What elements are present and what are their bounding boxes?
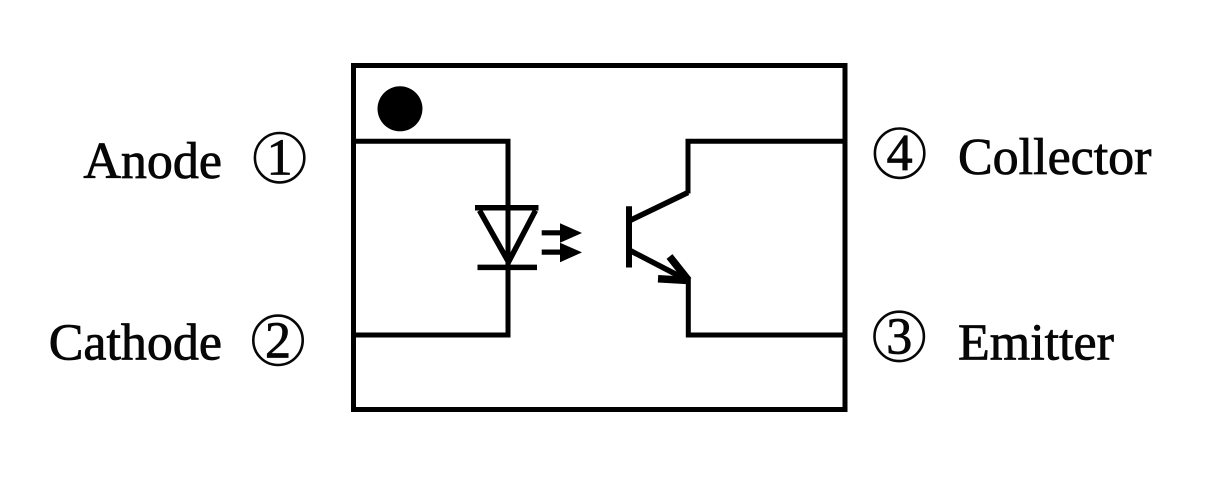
svg-text:Collector: Collector — [958, 129, 1152, 186]
svg-text:3: 3 — [886, 308, 912, 365]
wire: cathode lead LED to pin 2 — [351, 267, 508, 335]
pin 1 circled number circle — [255, 133, 304, 182]
svg-text:1: 1 — [267, 130, 293, 187]
LED D1 anode bar — [475, 205, 539, 211]
LED D1 cathode bar — [478, 265, 538, 271]
svg-text:Anode: Anode — [83, 133, 222, 190]
phototransistor Q1 emitter arm — [630, 251, 686, 280]
pin 4 circled number circle — [875, 129, 924, 178]
pin 2 circled number circle — [253, 316, 302, 365]
svg-text:Emitter: Emitter — [958, 315, 1114, 372]
wire: emitter lead pin 3 — [688, 279, 845, 335]
optocoupler package outline — [354, 66, 846, 410]
light emission arrow 2 head — [560, 243, 582, 262]
light emission arrow 1 shaft — [542, 230, 563, 235]
wire: collector lead pin 4 — [688, 141, 845, 193]
pin 3 circled number circle — [875, 312, 924, 361]
wire: anode lead pin 1 to LED — [351, 141, 508, 267]
phototransistor Q1 emitter arrowhead lower barb — [658, 279, 689, 281]
svg-text:4: 4 — [887, 125, 913, 182]
LED D1 triangle — [480, 211, 536, 263]
phototransistor Q1 emitter arrowhead upper barb — [670, 257, 689, 281]
svg-text:Cathode: Cathode — [49, 315, 222, 372]
light emission arrow 2 shaft — [542, 250, 563, 255]
svg-text:2: 2 — [265, 312, 291, 369]
phototransistor Q1 collector arm — [630, 193, 688, 221]
phototransistor Q1 base bar — [626, 206, 632, 267]
light emission arrow 1 head — [560, 223, 582, 243]
pin 1 indicator dot — [378, 86, 423, 131]
